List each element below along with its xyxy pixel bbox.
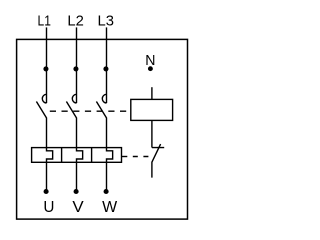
wire V out <box>76 162 78 191</box>
wire pole2 to overload <box>76 118 78 149</box>
mechanical linkage (dashed) poles to release coil <box>50 110 131 112</box>
wire L3 top <box>106 27 108 103</box>
trip contact blade <box>152 144 161 178</box>
trip contact foot bar <box>152 147 164 149</box>
overload cell divider 2 <box>91 148 93 163</box>
node U <box>44 189 49 194</box>
overload trip linkage stub <box>122 156 128 158</box>
node V <box>74 189 79 194</box>
node N <box>148 66 153 71</box>
breaker pole 2 fixed-contact hook <box>72 94 76 103</box>
breaker pole 2 moving blade <box>66 102 76 118</box>
enclosure box <box>17 39 188 219</box>
wire U out <box>46 162 48 191</box>
undervoltage release coil N stub <box>151 87 153 99</box>
breaker pole 3 moving blade <box>96 102 106 118</box>
coil to trip contact wire <box>151 120 153 147</box>
node W <box>104 189 109 194</box>
breaker pole 3 fixed-contact hook <box>102 94 106 103</box>
node L2 <box>73 66 78 71</box>
overload trip linkage (dashed) <box>133 156 149 158</box>
svg-text:V: V <box>72 199 84 216</box>
overload heater element 2 <box>77 148 83 163</box>
svg-text:U: U <box>43 199 54 216</box>
svg-text:L1: L1 <box>38 14 51 30</box>
breaker pole 1 fixed-contact hook <box>42 94 46 103</box>
wire L1 top <box>46 27 48 103</box>
svg-text:W: W <box>102 199 118 216</box>
node L3 <box>103 66 108 71</box>
overload relay outer rectangle <box>32 148 122 163</box>
overload cell divider 1 <box>61 148 63 163</box>
svg-text:L3: L3 <box>98 14 114 30</box>
node L1 <box>43 66 48 71</box>
overload heater element 3 <box>107 148 113 163</box>
wire pole3 to overload <box>106 118 108 149</box>
svg-text:L2: L2 <box>67 14 83 30</box>
wire pole1 to overload <box>46 118 48 149</box>
wire W out <box>106 162 108 191</box>
svg-text:N: N <box>145 53 155 69</box>
breaker pole 1 moving blade <box>36 102 46 118</box>
wire L2 top <box>76 27 78 103</box>
undervoltage release coil <box>131 99 173 120</box>
overload heater element 1 <box>47 148 53 163</box>
